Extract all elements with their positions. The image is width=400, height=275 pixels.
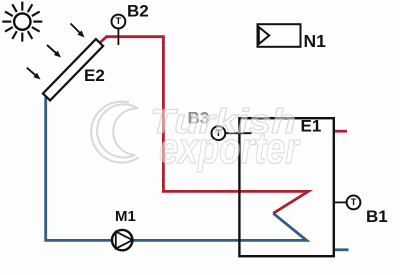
controller N1 (258, 24, 301, 47)
watermark text (150, 103, 301, 173)
radiation arrow 3 (27, 68, 41, 80)
svg-text:E2: E2 (84, 66, 105, 85)
wire: blue solar return pipe (46, 97, 307, 241)
svg-text:B2: B2 (127, 2, 149, 21)
sensor B2 (112, 15, 126, 45)
collector E2 (43, 39, 103, 100)
svg-text:B1: B1 (366, 207, 388, 226)
svg-text:E1: E1 (301, 117, 322, 136)
watermark swoosh (91, 102, 138, 163)
pump M1 (112, 230, 133, 250)
sensor B1 (335, 196, 361, 210)
tank E1 (239, 118, 333, 256)
svg-text:exporter: exporter (159, 124, 301, 173)
svg-text:N1: N1 (304, 31, 327, 51)
svg-text:M1: M1 (115, 208, 136, 225)
svg-text:T: T (351, 197, 357, 208)
svg-text:T: T (115, 16, 121, 27)
sun (2, 2, 42, 42)
red DHW stub (335, 130, 347, 133)
radiation arrow 1 (71, 24, 85, 38)
blue cold water stub (335, 248, 349, 251)
radiation arrow 2 (47, 45, 61, 58)
wire: red solar flow pipe (99, 37, 308, 214)
